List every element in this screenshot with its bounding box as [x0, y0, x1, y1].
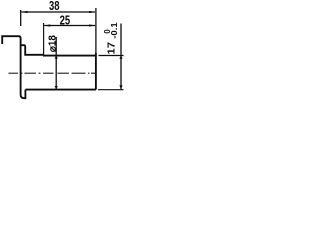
diameter dimension line (x=55.8) with arrows [55, 37, 58, 89]
17 dimension: extension lines [99, 55, 124, 57]
svg-text:25: 25 [60, 14, 71, 28]
extension line for 25 (x=43.6) [43, 23, 45, 57]
svg-text:⌀18: ⌀18 [48, 35, 59, 52]
body right face [95, 53, 97, 90]
svg-text:38: 38 [49, 0, 60, 13]
centerline (dash-dot) [9, 72, 96, 74]
svg-text:-0.1: -0.1 [110, 22, 119, 39]
dimension line 38 [21, 11, 96, 13]
17 dimension line with arrows [119, 24, 122, 90]
extension line left (x=20.7) [20, 10, 22, 26]
svg-text:17: 17 [105, 42, 117, 55]
body top edge (right of step) [44, 55, 96, 57]
collar top [21, 45, 44, 55]
dimension line 25 [44, 24, 96, 26]
extension line right (x=95.9) [95, 8, 97, 53]
body bottom edge [25, 89, 96, 91]
part outline: flange top edge [2, 36, 25, 98]
